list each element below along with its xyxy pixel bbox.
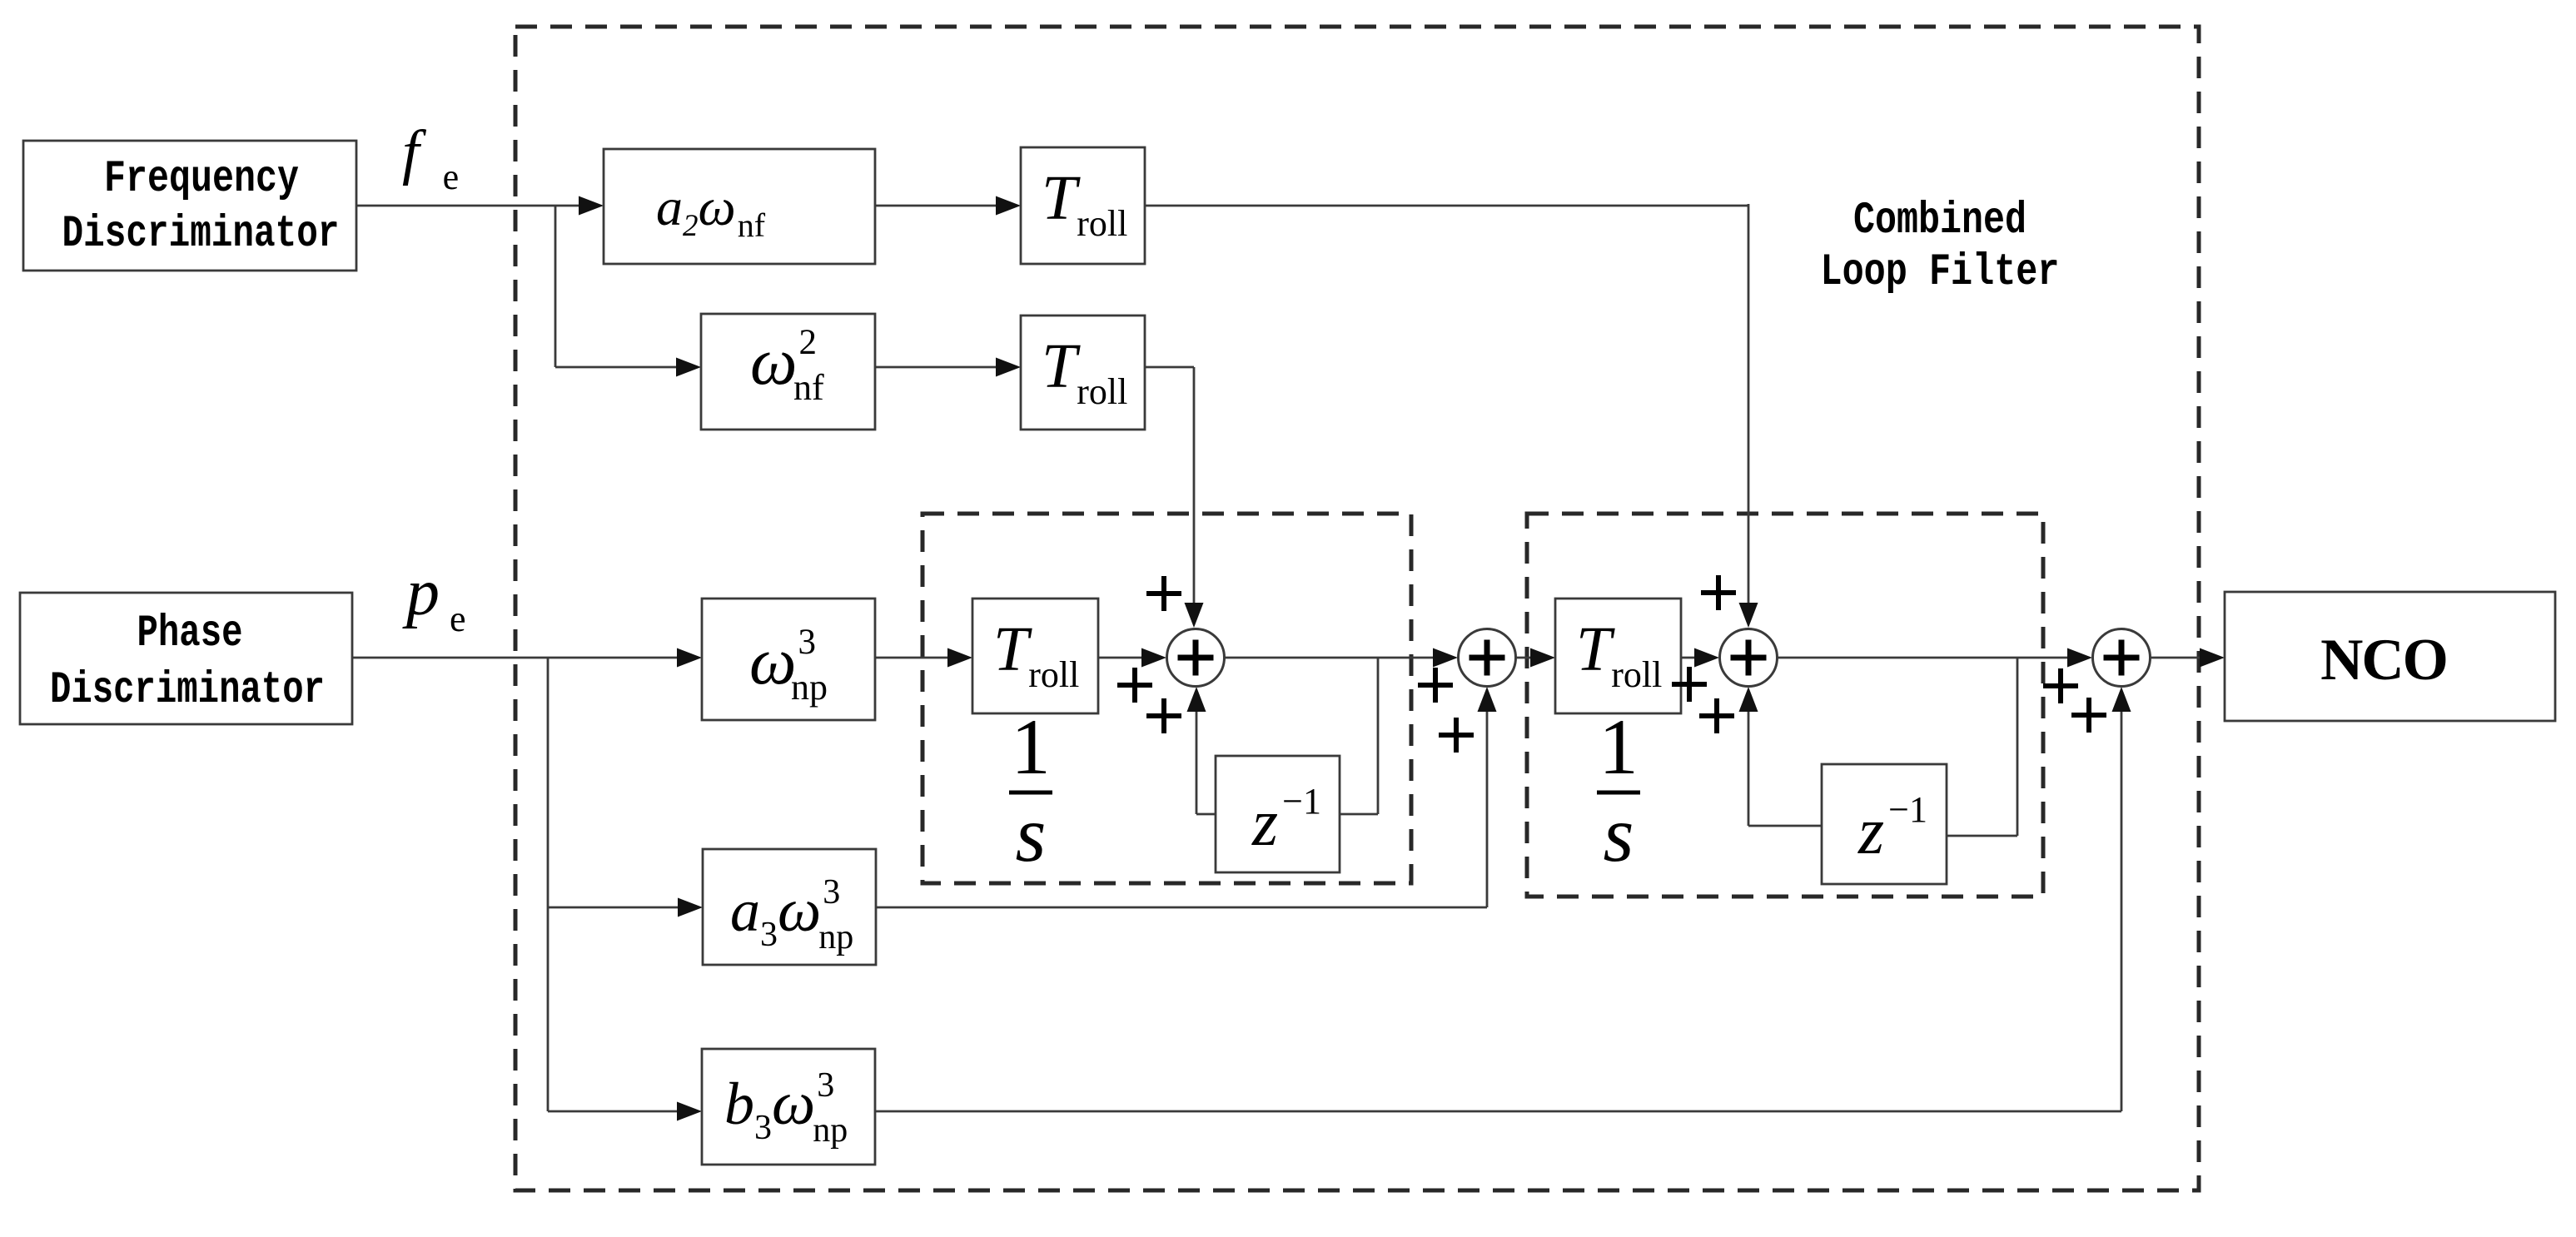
label 1/s integrator 2 bbox=[1597, 703, 1640, 878]
svg-text:s: s bbox=[1604, 790, 1634, 878]
plus sign S4 bottom input bbox=[2071, 698, 2106, 733]
block Troll 2 bbox=[1021, 315, 1145, 430]
wire a2wnf to Troll block 1 bbox=[875, 196, 1021, 216]
node junction to z-1 block 1 bbox=[1340, 658, 1378, 814]
label f_e bbox=[402, 118, 459, 197]
svg-text:1: 1 bbox=[1599, 703, 1639, 791]
svg-text:Discriminator: Discriminator bbox=[50, 665, 325, 716]
svg-text:Discriminator: Discriminator bbox=[62, 209, 340, 260]
node junction p_e split bbox=[547, 658, 550, 1111]
label 1/s integrator 1 bbox=[1009, 703, 1052, 878]
outer dashed box: Combined Loop Filter boundary bbox=[515, 27, 2199, 1190]
wire wnf2 to Troll block 2 bbox=[875, 358, 1021, 377]
svg-text:Combined: Combined bbox=[1853, 196, 2026, 246]
wire Troll3 to summing node S1 bbox=[1098, 648, 1166, 668]
block Frequency Discriminator bbox=[23, 141, 356, 271]
wire p_e: Phase Discriminator to wnp^3 gain bbox=[352, 648, 702, 668]
plus sign S1 left input bbox=[1117, 668, 1152, 703]
wire Troll4 to summing node S3 bbox=[1681, 648, 1719, 668]
wire p_e branch to a3wnp3 gain bbox=[548, 898, 703, 917]
block z^-1 delay 1 bbox=[1216, 756, 1340, 872]
wire f_e branch to wnf^2 gain bbox=[555, 358, 701, 377]
wire f_e: Frequency Discriminator to a2wnf gain bbox=[356, 196, 604, 216]
block Troll 1 bbox=[1021, 147, 1145, 264]
block gain wnp3 bbox=[702, 599, 875, 720]
block gain b3wnp3 bbox=[702, 1049, 875, 1165]
wire S4 to NCO bbox=[2150, 648, 2225, 668]
dashed sub-box: first integrator 1/s bbox=[922, 514, 1411, 883]
block z^-1 delay 2 bbox=[1822, 764, 1947, 884]
block Troll 3 bbox=[972, 599, 1098, 713]
block gain a2wnf bbox=[604, 149, 875, 264]
wire z-1 block 2 feedback to S3 bbox=[1739, 687, 1823, 826]
wire b3wnp3 output to S4 bottom bbox=[875, 687, 2131, 1111]
label p_e bbox=[402, 556, 466, 639]
wire S2 to Troll block 4 bbox=[1516, 648, 1555, 668]
block NCO bbox=[2225, 592, 2555, 721]
summing node S2 bbox=[1459, 629, 1516, 687]
block Troll 4 bbox=[1555, 599, 1681, 713]
label Combined Loop Filter bbox=[1821, 196, 2060, 298]
wire Troll2 down feed to summing node S1 bbox=[1145, 367, 1204, 628]
svg-text:Phase: Phase bbox=[137, 609, 243, 659]
plus sign S1 top input bbox=[1146, 576, 1181, 611]
plus sign S1 bottom input bbox=[1146, 698, 1181, 733]
wire p_e branch to b3wnp3 gain bbox=[548, 1102, 702, 1121]
wire S3 to summing node S4 bbox=[1777, 648, 2092, 668]
svg-text:s: s bbox=[1016, 790, 1047, 878]
svg-text:Frequency: Frequency bbox=[104, 154, 299, 205]
dashed sub-box: second integrator 1/s bbox=[1527, 514, 2043, 897]
wire z-1 block 1 feedback to S1 bbox=[1187, 687, 1216, 814]
plus sign S3 top input bbox=[1701, 575, 1736, 610]
block Phase Discriminator bbox=[20, 593, 352, 724]
plus sign S2 left input bbox=[1418, 668, 1453, 703]
plus sign S4 left input bbox=[2043, 668, 2078, 703]
svg-text:NCO: NCO bbox=[2320, 628, 2447, 693]
plus sign S3 bottom input bbox=[1699, 698, 1734, 733]
summing node S4 bbox=[2093, 629, 2151, 687]
summing node S1 bbox=[1167, 629, 1225, 687]
svg-text:1: 1 bbox=[1011, 703, 1051, 791]
wire S1 to summing node S2 bbox=[1224, 648, 1458, 668]
node junction to z-1 block 2 bbox=[1947, 658, 2017, 836]
block gain wnf2 bbox=[701, 314, 875, 430]
node junction f_e split bbox=[554, 206, 557, 367]
plus sign S3 left input bbox=[1672, 667, 1707, 702]
plus sign S2 bottom input bbox=[1439, 718, 1474, 753]
wire a3wnp3 output to S2 bottom bbox=[876, 687, 1497, 907]
summing node S3 bbox=[1720, 629, 1778, 687]
svg-text:Loop Filter: Loop Filter bbox=[1821, 247, 2060, 298]
wire Troll1 long feed to summing node S3 bbox=[1145, 204, 1758, 628]
wire wnp3 to Troll block 3 bbox=[875, 648, 972, 668]
block gain a3wnp3 bbox=[703, 849, 876, 965]
